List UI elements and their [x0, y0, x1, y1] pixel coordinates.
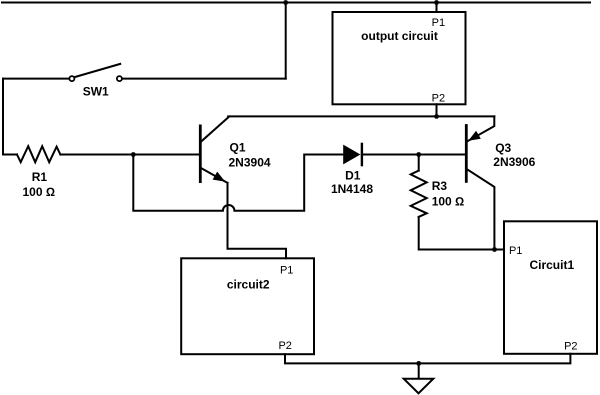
junction node on top rail above switch riser: [283, 0, 288, 5]
switch SW1: [3, 64, 122, 99]
resistor R3: [411, 171, 465, 217]
diode D1: [331, 144, 373, 196]
svg-text:1N4148: 1N4148: [331, 182, 373, 196]
svg-text:P1: P1: [432, 17, 445, 29]
junction node on top rail above output circuit P1: [434, 0, 439, 5]
svg-text:R1: R1: [32, 170, 48, 184]
svg-text:R3: R3: [432, 179, 448, 193]
junction node at ground tap: [416, 361, 421, 366]
svg-text:2N3906: 2N3906: [493, 155, 535, 169]
wire collector bus from Q1 to Q3 emitter corner: [228, 115, 494, 117]
wire top supply rail: [2, 2, 590, 4]
junction node at R1 / feedback branch: [131, 152, 136, 157]
wire output circuit P1 riser: [436, 3, 438, 13]
wire Q1 emitter down to circuit2 P1: [228, 183, 287, 258]
svg-text:output circuit: output circuit: [361, 29, 438, 43]
svg-text:P2: P2: [564, 340, 577, 352]
wire left rail down from switch to R1: [3, 79, 17, 155]
svg-text:P1: P1: [509, 245, 522, 257]
svg-text:P1: P1: [280, 265, 293, 277]
box Circuit1: [504, 221, 597, 353]
junction node Q3 collector / Circuit1 P1: [492, 247, 497, 252]
svg-text:SW1: SW1: [83, 85, 109, 99]
junction node on collector bus below output circuit P2: [434, 114, 439, 119]
svg-text:D1: D1: [345, 169, 361, 183]
transistor Q1: [200, 117, 271, 182]
box circuit2: [181, 258, 314, 354]
ground: [404, 363, 434, 393]
wire ground bus from circuit2 P2 to Circuit1 P2: [285, 354, 570, 364]
svg-text:P2: P2: [432, 93, 445, 105]
resistor R1: [17, 146, 60, 199]
svg-text:100 Ω: 100 Ω: [432, 195, 465, 209]
svg-text:Q1: Q1: [230, 141, 246, 155]
wire R3 top lead: [418, 155, 420, 171]
wire R1 to Q1 base: [60, 154, 199, 156]
svg-text:2N3904: 2N3904: [229, 155, 271, 169]
wire output circuit P2 riser: [436, 104, 438, 116]
transistor Q3: [466, 116, 535, 249]
wire D1 cathode to Q3 base: [362, 154, 465, 156]
wire riser from switch node to top rail: [285, 3, 287, 79]
wire switch right terminal to riser: [123, 78, 286, 80]
wire R3 bottom lead to Circuit1 P1: [419, 217, 504, 250]
wire feedback branch down, across (hop over emitter), up to D1 anode: [133, 155, 342, 211]
junction node at R3 top tap: [416, 152, 421, 157]
svg-text:100 Ω: 100 Ω: [23, 185, 56, 199]
svg-text:P2: P2: [278, 340, 291, 352]
svg-text:Q3: Q3: [495, 141, 511, 155]
box output circuit: [333, 12, 466, 105]
svg-text:circuit2: circuit2: [227, 278, 270, 292]
svg-text:Circuit1: Circuit1: [529, 258, 574, 272]
